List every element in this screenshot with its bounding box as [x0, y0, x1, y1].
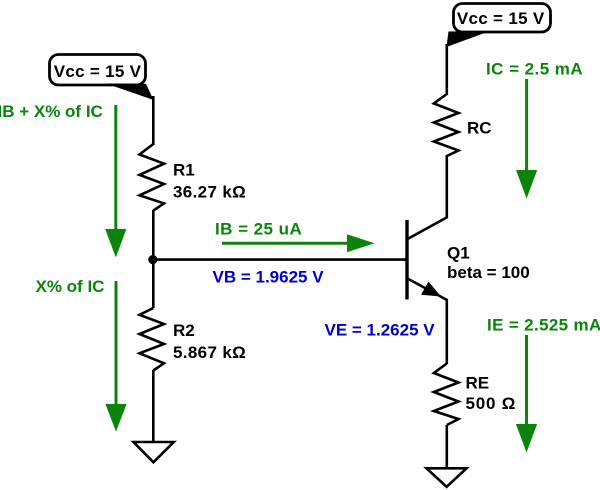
wire: right Vcc callout to RC top: [445, 44, 448, 95]
Vcc supply label box (right): [454, 4, 551, 33]
ground (left): [134, 442, 174, 462]
resistor R2: [140, 308, 165, 371]
node: base junction dot: [148, 255, 157, 264]
svg-text:R1: R1: [173, 161, 195, 180]
svg-text:VE = 1.2625 V: VE = 1.2625 V: [325, 321, 436, 340]
Q1 collector diagonal: [408, 217, 448, 239]
svg-text:R2: R2: [173, 321, 195, 340]
wire: base node to Q1 base: [153, 258, 407, 261]
callout wedge (right Vcc): [446, 31, 490, 47]
current arrow: IB + X% of IC (down): [105, 105, 126, 258]
wire: R1 bottom to base node: [152, 210, 155, 260]
Q1 emitter arrowhead: [421, 282, 441, 297]
svg-text:RE: RE: [466, 374, 490, 393]
svg-text:500 Ω: 500 Ω: [466, 394, 517, 413]
svg-text:RC: RC: [467, 119, 492, 138]
wire: base node down to R2 top: [152, 260, 155, 308]
svg-text:5.867 kΩ: 5.867 kΩ: [173, 343, 246, 362]
current arrow: IE (down): [516, 335, 537, 453]
svg-text:IE = 2.525 mA: IE = 2.525 mA: [487, 316, 600, 335]
svg-text:IB = 25 uA: IB = 25 uA: [215, 220, 302, 239]
Q1 emitter diagonal: [408, 279, 448, 301]
transistor Q1: [407, 217, 448, 300]
svg-text:VB = 1.9625 V: VB = 1.9625 V: [213, 268, 325, 287]
resistor RE: [434, 364, 459, 426]
callout wedge (left Vcc): [106, 84, 154, 101]
wire: left Vcc callout to R1 top: [152, 96, 155, 145]
svg-text:Q1: Q1: [447, 244, 470, 263]
current arrow: X% of IC (down): [105, 281, 126, 432]
wire: RE bottom to right ground: [445, 425, 448, 467]
Vcc supply label box (left): [50, 55, 146, 86]
svg-text:beta = 100: beta = 100: [447, 263, 530, 282]
resistor R1: [140, 144, 165, 211]
current arrow: IC (down): [516, 79, 537, 199]
current arrow: IB (right): [222, 234, 375, 252]
ground (right): [427, 468, 467, 487]
svg-text:X% of IC: X% of IC: [36, 277, 105, 296]
svg-text:Vcc = 15 V: Vcc = 15 V: [457, 9, 545, 28]
svg-text:Vcc = 15 V: Vcc = 15 V: [54, 62, 142, 81]
wire: Q1 emitter to RE top: [445, 299, 448, 364]
Q1 base bar: [405, 220, 408, 300]
svg-text:IC = 2.5 mA: IC = 2.5 mA: [486, 60, 583, 79]
resistor RC: [434, 94, 459, 156]
wire: RC bottom to Q1 collector bend: [445, 155, 448, 218]
wire: R2 bottom to left ground: [152, 370, 155, 441]
svg-text:36.27 kΩ: 36.27 kΩ: [173, 183, 246, 202]
svg-text:IB + X% of IC: IB + X% of IC: [0, 102, 103, 121]
